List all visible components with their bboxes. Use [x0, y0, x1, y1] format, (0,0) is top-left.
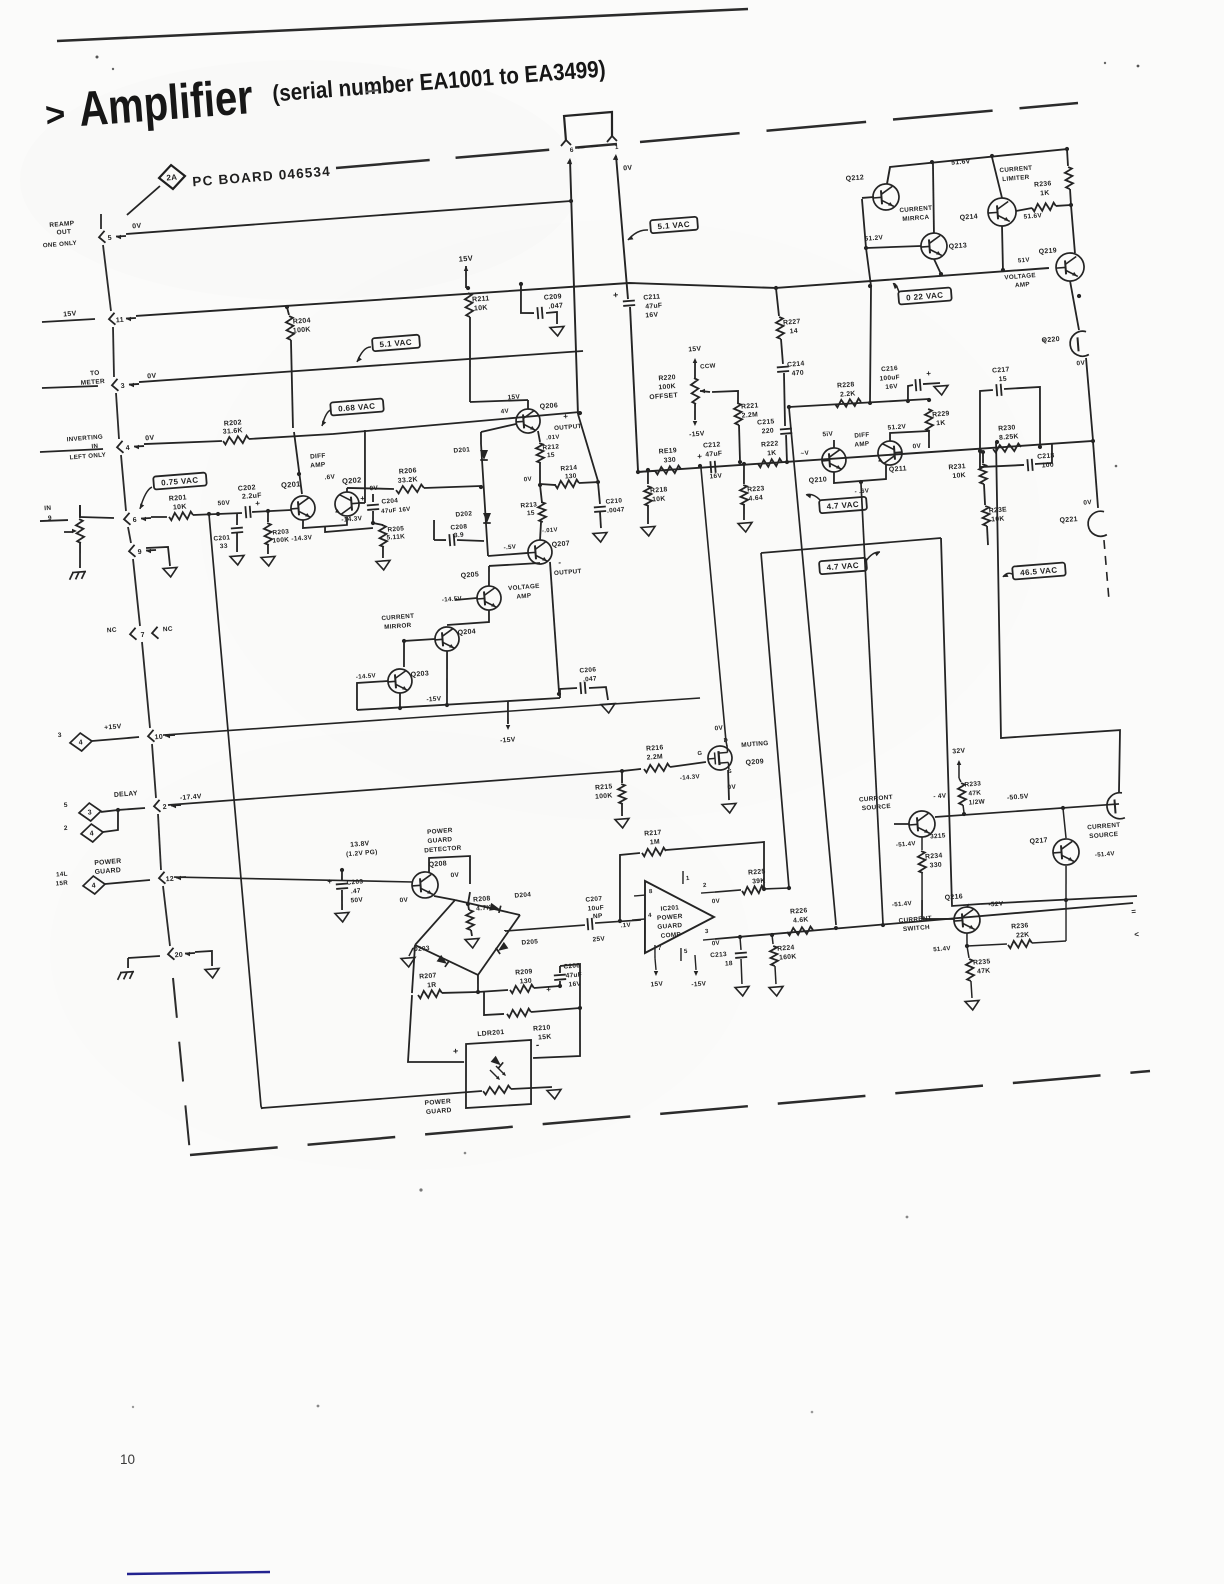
wire C206 top link [560, 964, 583, 1009]
svg-text:4: 4 [90, 830, 95, 837]
wire R214 to left leg vertical [579, 482, 598, 484]
svg-text:0V: 0V [1083, 499, 1092, 507]
svg-text:-52V: -52V [988, 900, 1004, 908]
IC201 pin 1 [682, 871, 684, 884]
IC201 pin 3 output [703, 939, 715, 940]
svg-text:0V: 0V [147, 373, 157, 381]
ground input pot [78, 543, 82, 568]
svg-text:- 4V: - 4V [933, 792, 947, 800]
svg-text:100: 100 [1041, 462, 1054, 470]
wire Q205 collector up [487, 566, 490, 586]
wire Q212 base left [862, 196, 874, 199]
wire Q219 emitter down [1070, 281, 1079, 331]
svg-text:.47: .47 [351, 888, 362, 896]
svg-text:10: 10 [154, 734, 163, 742]
IC201 pin 4 input [632, 919, 645, 920]
ground pin9 [163, 567, 178, 577]
capacitor C211 47uF 16V [623, 299, 635, 302]
svg-text:-15V: -15V [689, 430, 705, 438]
IC201 pin 5 [680, 948, 682, 961]
ground C201 [230, 555, 245, 565]
wire R236b up to Q217 emitter [1063, 899, 1070, 941]
svg-text:15V: 15V [507, 393, 520, 401]
svg-text:IN: IN [44, 505, 52, 513]
wire R230 in bus [1038, 445, 1043, 450]
resistor R221 2.2M [734, 403, 743, 425]
wire R236 leads [1016, 208, 1032, 211]
connector pin 4 INVERTING IN [117, 441, 124, 453]
svg-text:R203: R203 [272, 528, 289, 536]
ground R223 [738, 522, 753, 532]
svg-text:C203: C203 [346, 878, 363, 886]
blue footer rule [127, 1572, 270, 1574]
wire diamond to pin12 [105, 880, 150, 884]
svg-text:R220: R220 [658, 374, 676, 382]
svg-text:AMP: AMP [854, 440, 869, 448]
wire Q209 source to ground [727, 770, 731, 800]
svg-text:+: + [453, 1046, 459, 1056]
ground R224 [769, 986, 784, 996]
capacitor C210 .0047 [598, 482, 600, 504]
svg-text:160K: 160K [779, 953, 797, 961]
svg-text:33: 33 [220, 543, 228, 551]
diode bridge power guard [412, 900, 459, 945]
wire input stub from page edge [40, 519, 68, 522]
svg-text:4: 4 [126, 445, 131, 452]
top dashed frame border right of bridge [640, 103, 1078, 142]
svg-text:C211: C211 [643, 293, 661, 301]
connector pin 11 15V [109, 313, 116, 325]
resistor R207 1R [418, 989, 442, 998]
svg-text:Q216: Q216 [944, 893, 963, 901]
svg-text:0V: 0V [623, 165, 633, 173]
svg-text:Q201: Q201 [281, 479, 301, 490]
resistor R233 47K 1/2W [959, 778, 961, 782]
svg-text:+: + [613, 290, 619, 300]
svg-text:~V: ~V [800, 450, 809, 458]
wire Q217 emitter down to bus [1063, 866, 1068, 899]
wire Q221 dashed continuation [1104, 540, 1109, 600]
wire 0.68 VAC feedback line [333, 412, 580, 434]
wire -50.5V bus [935, 803, 1119, 819]
wire from diamond to board edge [125, 186, 162, 215]
svg-text:6: 6 [132, 517, 137, 524]
wire V2 from diff emitters to output node [848, 484, 895, 924]
svg-text:3215: 3215 [930, 832, 946, 840]
wire rail to Q219 [1071, 205, 1075, 253]
resistor R211 10K [466, 286, 471, 291]
svg-text:C210: C210 [605, 497, 622, 505]
svg-text:50V: 50V [350, 897, 363, 905]
transistor Q206 +output [515, 408, 541, 434]
svg-text:3: 3 [58, 732, 63, 739]
svg-text:C218: C218 [1037, 452, 1055, 460]
svg-text:10: 10 [120, 1452, 135, 1467]
svg-text:7: 7 [141, 632, 146, 639]
resistor right rail 1K [1067, 149, 1069, 166]
wire Q213 emitter to T2 bus [934, 259, 941, 275]
svg-text:51.6V: 51.6V [1023, 212, 1042, 220]
ground bridge left node [408, 948, 413, 956]
svg-text:2.2M: 2.2M [741, 411, 758, 419]
wire left leg extension to C210 [578, 413, 598, 482]
svg-text:2: 2 [162, 804, 167, 811]
wire R219 left lead [638, 471, 655, 473]
svg-text:39K: 39K [752, 878, 766, 886]
connector pin 20 [168, 948, 175, 960]
wire pin12 line to Q208 base [174, 858, 413, 900]
wire pin20 right [195, 951, 213, 968]
transistor Q211 diff amp [877, 440, 903, 466]
svg-text:R218: R218 [650, 486, 668, 494]
svg-text:C206: C206 [579, 666, 596, 674]
svg-text:IC201: IC201 [660, 904, 679, 912]
svg-text:R229: R229 [932, 410, 950, 418]
left dashed frame border below pin 20 [173, 978, 190, 1153]
wire bridge left to R207 [408, 945, 419, 993]
svg-text:3.9: 3.9 [454, 532, 465, 540]
svg-text:R214: R214 [560, 464, 577, 472]
top dashed frame border left of bridge [336, 144, 617, 168]
wire Q202 collector to R206 [346, 488, 349, 492]
capacitor C215 220 chain [780, 428, 792, 431]
svg-text:0V: 0V [145, 435, 155, 443]
wire R217 to R225 node [666, 842, 768, 896]
ground R235 [965, 1000, 980, 1010]
wire R206 to diode chain [424, 484, 481, 491]
svg-text:R235: R235 [973, 958, 991, 966]
wire Q205 base left [455, 598, 477, 600]
transistor Q205 voltage amp [476, 585, 502, 611]
svg-text:- .6V: - .6V [854, 487, 870, 495]
svg-text:15V: 15V [63, 310, 77, 318]
svg-text:1/2W: 1/2W [968, 798, 985, 806]
wire pin11 stub [42, 318, 95, 323]
wire R212 to R214 node [538, 463, 541, 485]
ground C203 [335, 912, 350, 922]
wire Q207 emitter down to -15V bus [549, 562, 560, 692]
svg-text:R215: R215 [595, 783, 613, 791]
svg-text:4: 4 [92, 882, 97, 889]
svg-text:Q219: Q219 [1038, 247, 1057, 255]
bridge left leg with up arrow [566, 158, 572, 165]
svg-text:C204: C204 [381, 497, 398, 505]
wire R213 to Q207 [539, 522, 543, 540]
transistor Q214 current limiter [987, 197, 1017, 227]
svg-text:R227: R227 [783, 318, 801, 326]
svg-text:470: 470 [791, 370, 804, 378]
svg-text:C202: C202 [238, 484, 256, 492]
resistor R227 14 [776, 317, 785, 339]
svg-text:4.7K: 4.7K [476, 904, 492, 912]
wire R230 loop top [975, 390, 997, 451]
transistor Q201 diff amp [290, 495, 316, 521]
svg-text:15: 15 [999, 376, 1008, 384]
transistor Q210 diff amp [821, 447, 847, 473]
svg-text:4.64: 4.64 [748, 494, 763, 502]
wire Q204 base to Q203 [402, 639, 437, 668]
svg-text:NC: NC [163, 626, 174, 634]
svg-text:+15V: +15V [104, 723, 122, 731]
svg-text:C215: C215 [757, 418, 775, 426]
resistor R229 1K [927, 398, 932, 403]
wire diamond to pin10 [92, 737, 139, 741]
svg-text:1K: 1K [767, 450, 777, 458]
svg-text:51.4V: 51.4V [933, 945, 952, 953]
wire V3 from 4.7VAC line to R225 junction [761, 553, 789, 888]
svg-text:R236: R236 [1034, 180, 1052, 188]
LDR201 LED arrows [490, 1055, 501, 1066]
svg-text:C214: C214 [787, 360, 805, 368]
wire input node vertical to power guard [207, 512, 212, 517]
svg-text:0V: 0V [714, 725, 723, 733]
capacitor C213 18 [740, 937, 741, 950]
svg-text:.047: .047 [548, 302, 563, 310]
svg-text:.01V: .01V [546, 435, 560, 442]
wire pin5 0V line to bridge leg [126, 199, 571, 236]
svg-text:11: 11 [116, 317, 125, 325]
transistor partial right edge current source 2 [1106, 792, 1125, 819]
svg-text:0V: 0V [523, 476, 532, 484]
svg-text:C217: C217 [992, 366, 1010, 374]
svg-text:51.2V: 51.2V [864, 234, 883, 242]
svg-text:R201: R201 [169, 494, 187, 502]
svg-text:12: 12 [165, 876, 174, 884]
wire node to R209 [478, 990, 508, 993]
svg-text:R212: R212 [542, 443, 559, 451]
svg-text:R210: R210 [533, 1024, 551, 1032]
bottom dashed frame border [190, 1071, 1150, 1155]
svg-text:Q221: Q221 [1059, 516, 1078, 524]
svg-text:15V: 15V [688, 346, 702, 354]
svg-text:R228: R228 [837, 381, 855, 389]
ground LDR [547, 1089, 562, 1099]
svg-text:AMP: AMP [310, 461, 326, 469]
bridge dashes between pins [578, 145, 604, 148]
wire Q201 base vertical from feedback line [294, 432, 302, 494]
svg-text:R224: R224 [777, 944, 795, 952]
wire diff emitters [302, 517, 347, 529]
svg-text:10uF: 10uF [587, 904, 604, 912]
svg-text:Q211: Q211 [889, 465, 907, 473]
transistor Q202 diff amp [334, 491, 360, 517]
svg-text:+: + [563, 412, 569, 421]
svg-text:-15V: -15V [426, 695, 442, 703]
svg-text:Q202: Q202 [342, 475, 362, 486]
LDR201 box [461, 1039, 536, 1109]
transistor Q213 [920, 232, 948, 260]
svg-text:-.5V: -.5V [503, 543, 517, 551]
wire Q220 down to mid bus [1086, 358, 1093, 440]
power arrow 15V above R211 [464, 266, 467, 288]
svg-text:AMP: AMP [516, 592, 531, 600]
svg-text:47uF: 47uF [705, 450, 723, 458]
svg-text:D204: D204 [514, 891, 531, 899]
wire Q206 emitter to R212 [538, 431, 540, 442]
svg-text:Q205: Q205 [460, 571, 479, 579]
IC201 pin 2 [701, 892, 715, 893]
svg-text:5: 5 [64, 802, 69, 809]
svg-text:RE19: RE19 [659, 447, 678, 455]
svg-text:<: < [1134, 930, 1140, 939]
svg-text:16V: 16V [885, 383, 898, 391]
wire Q213 base link [866, 244, 921, 251]
capacitor C216 100uF 16V [906, 399, 911, 404]
title Amplifier [43, 44, 607, 140]
measurement box 5.1 VAC input [372, 335, 420, 352]
wire bridge bottom stem [477, 975, 480, 992]
svg-text:Q209: Q209 [745, 758, 764, 766]
svg-text:R221: R221 [741, 402, 759, 410]
svg-text:Q208: Q208 [428, 860, 447, 868]
svg-text:AMP: AMP [1015, 281, 1030, 289]
wire R234 to Q216 base [921, 898, 954, 922]
wire Q216 collector to bus B [967, 904, 969, 907]
capacitor C217 15 [995, 384, 998, 396]
wire Q208 collector to bridge top [428, 855, 472, 887]
measurement box 5.1 VAC bridge [650, 217, 698, 234]
svg-text:0V: 0V [132, 223, 142, 231]
svg-text:.1V: .1V [620, 922, 631, 930]
svg-text:16V: 16V [709, 472, 722, 480]
wire Q213 collector up [928, 163, 938, 233]
svg-text:R226: R226 [790, 907, 808, 915]
svg-text:Q207: Q207 [551, 540, 570, 548]
transistor Q221 partial [1087, 511, 1107, 537]
capacitor C202 2.2uF [244, 506, 247, 518]
resistor R231 10K [981, 450, 986, 455]
svg-text:32V: 32V [952, 747, 966, 755]
resistor R234 330 [918, 851, 927, 873]
svg-text:15R: 15R [56, 880, 69, 888]
svg-text:2.2K: 2.2K [840, 390, 856, 398]
wire Q212 base vertical down to R228 line [854, 199, 880, 403]
svg-text:0V: 0V [712, 898, 721, 906]
ground R205 [376, 560, 391, 570]
resistor R202 31.6K [223, 435, 249, 444]
resistor R230 8.25K [993, 443, 1021, 452]
wire delay diamonds merge [101, 810, 118, 812]
IC201 pin 7 [654, 945, 656, 958]
resistor R232 10K [982, 506, 991, 527]
ground pin20 hatched [117, 973, 122, 980]
svg-text:9: 9 [138, 549, 143, 556]
LDR photo resistor [483, 1085, 511, 1094]
wire Q215 emitter down [921, 837, 923, 850]
resistor R209 130 [510, 984, 534, 993]
svg-text:R225: R225 [748, 868, 766, 876]
resistor R216 2.2M [622, 769, 641, 771]
measurement box 0.68 VAC [330, 398, 384, 415]
potentiometer R220 100K OFFSET [690, 378, 699, 404]
ground R203 [261, 556, 276, 566]
wire Q217 vertical from -50.5 bus [1063, 808, 1066, 838]
resistor R208 4.7K [466, 902, 471, 907]
wire pin20 left to ground [128, 955, 160, 958]
svg-text:0V: 0V [1076, 360, 1085, 368]
svg-text:TO: TO [90, 370, 100, 378]
capacitor C206 47uF 16V power guard [534, 986, 560, 988]
svg-text:1M: 1M [650, 839, 661, 847]
ground C206 [601, 703, 616, 713]
svg-text:14: 14 [789, 328, 798, 336]
capacitor C204 47uF 16V [372, 494, 373, 502]
transistor Q203 current mirror [387, 668, 413, 694]
svg-text:DIFF: DIFF [854, 431, 870, 439]
IC201 pin 8 [634, 894, 645, 897]
wire pin4 stub [40, 447, 103, 454]
ground C209 [550, 326, 565, 336]
svg-text:1K: 1K [1040, 190, 1050, 198]
svg-text:.047: .047 [583, 675, 597, 683]
ground Q209 [722, 803, 737, 813]
wire V1 from R228 node to R225 node [789, 407, 836, 926]
svg-text:47K: 47K [977, 967, 991, 975]
wire Q209 drain up to mid bus node [701, 468, 726, 742]
resistor R212 15 [536, 443, 545, 464]
wire Q202 base to 0.68 line [359, 501, 365, 504]
svg-text:Q220: Q220 [1041, 336, 1060, 344]
wire 46.5 VAC vertical [995, 440, 1000, 445]
bridge pin 1 chevron [607, 136, 613, 142]
resistor R225 39K [715, 890, 741, 892]
wire emitters to R205 [325, 523, 373, 532]
svg-text:Q217: Q217 [1029, 837, 1048, 845]
wire R211 to Q206 collector [470, 397, 528, 404]
svg-text:4: 4 [78, 739, 83, 746]
transistor Q208 power guard det [411, 871, 439, 899]
capacitor C209 .047 [519, 282, 524, 287]
bridge right leg with up arrow [612, 154, 618, 161]
diamond 2A PC board ref [158, 164, 186, 190]
resistor R217 1M feedback [618, 919, 623, 924]
svg-text:R213: R213 [520, 501, 537, 509]
wire bridge node to C207 [504, 930, 506, 931]
svg-text:R223: R223 [747, 485, 765, 493]
ground R218 [641, 526, 656, 536]
svg-text:C216: C216 [881, 365, 898, 373]
connector pin 9 [129, 545, 136, 557]
svg-text:16V: 16V [645, 311, 659, 319]
wire R201 to C202 [193, 511, 242, 517]
svg-text:6: 6 [570, 147, 575, 154]
connector pin 6 input [124, 513, 131, 525]
measurement box 4.7 VAC upper [819, 497, 867, 514]
svg-text:10K: 10K [652, 496, 666, 504]
capacitor C207 10uF NP 25V [505, 925, 585, 932]
svg-text:+: + [360, 494, 366, 503]
svg-text:+: + [327, 877, 333, 886]
svg-text:25V: 25V [592, 935, 605, 943]
page top rule [57, 9, 748, 41]
svg-text:10K: 10K [474, 304, 488, 312]
wire Q203 base loop [355, 681, 390, 710]
svg-text:51.2V: 51.2V [887, 423, 906, 431]
wire C202 to Q201 base [252, 509, 291, 513]
svg-text:2.2M: 2.2M [646, 753, 663, 761]
wire pot top to pin6 [79, 505, 81, 517]
svg-text:10K: 10K [173, 503, 187, 511]
wire delay line to muting [168, 769, 622, 807]
resistor R215 100K [621, 771, 623, 783]
capacitor C208 3.9 [434, 539, 446, 541]
transistor Q219 voltage amp [1055, 252, 1085, 282]
wire Q204 emitter to bus [443, 651, 452, 705]
wire pin3 line [139, 347, 583, 386]
svg-text:15K: 15K [538, 1034, 552, 1042]
wire R221 top to R220 wiper [712, 390, 739, 405]
svg-text:R202: R202 [224, 419, 242, 427]
